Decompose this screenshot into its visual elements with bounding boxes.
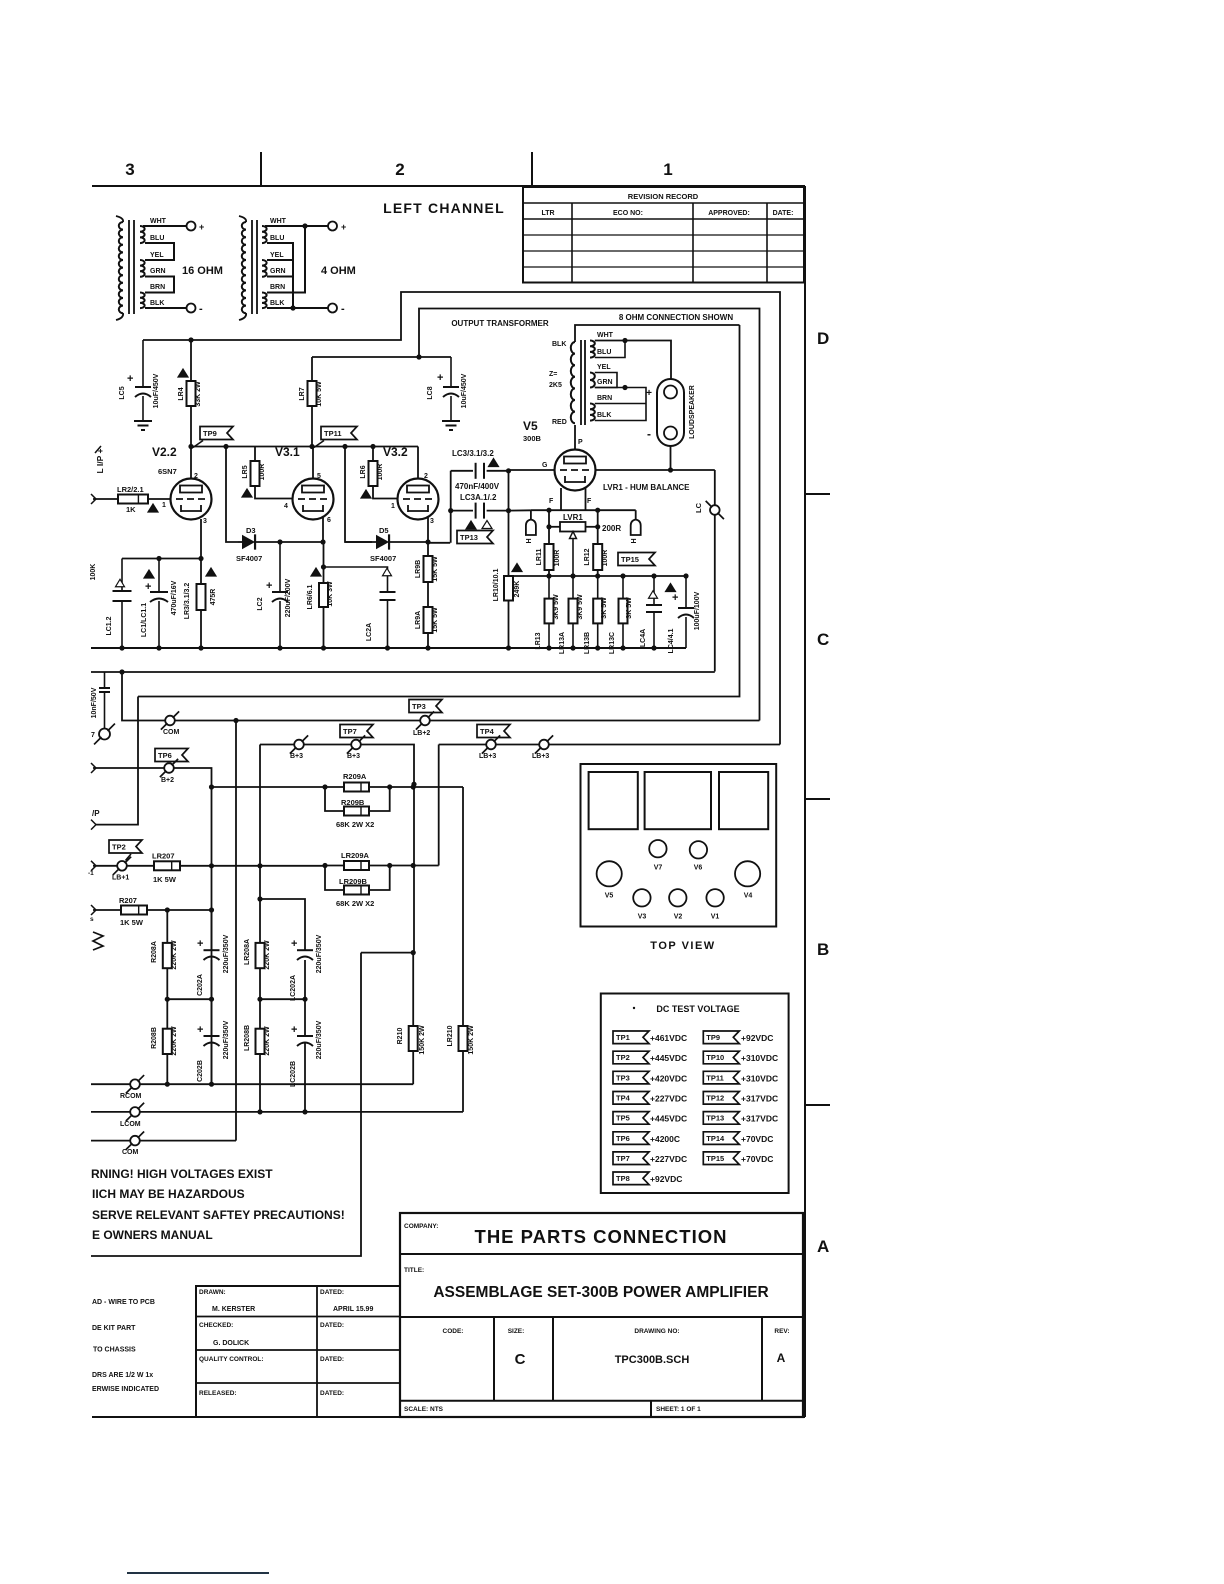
svg-text:TP6: TP6 bbox=[158, 751, 172, 760]
test point TP4 bbox=[477, 725, 510, 738]
svg-text:3: 3 bbox=[430, 518, 434, 525]
tube hole V2 bbox=[669, 889, 686, 906]
resistor LR5 100R bbox=[254, 447, 256, 462]
DC table flag TP6 bbox=[613, 1132, 649, 1145]
LC4A polarity triangle bbox=[649, 591, 658, 599]
svg-text:7: 7 bbox=[91, 732, 95, 739]
wire LR209A row to LB+3 riser bbox=[390, 865, 439, 867]
connector LB+2 bbox=[420, 716, 430, 726]
svg-text:249K: 249K bbox=[514, 581, 521, 598]
input zigzag symbol bbox=[93, 932, 103, 950]
svg-text:10uF/450V: 10uF/450V bbox=[461, 373, 468, 408]
COM row wire bbox=[140, 1140, 236, 1142]
wire riser x463 to LR210 bbox=[462, 787, 464, 1026]
wire COM vertical to bottom COM row bbox=[235, 721, 237, 1141]
svg-text:TP9: TP9 bbox=[203, 429, 217, 438]
svg-text:B+2: B+2 bbox=[161, 777, 174, 784]
svg-text:Z=: Z= bbox=[549, 371, 557, 378]
capacitor 10nF/50V at left edge bbox=[104, 672, 106, 688]
svg-text:33K 2W: 33K 2W bbox=[195, 381, 202, 407]
svg-text:TPC300B.SCH: TPC300B.SCH bbox=[615, 1354, 690, 1366]
svg-text:LEFT CHANNEL: LEFT CHANNEL bbox=[383, 200, 505, 216]
capacitor LC3A.1/.2 bbox=[451, 510, 473, 512]
wire LR207 to LR209A row bbox=[180, 865, 325, 867]
svg-text:WHT: WHT bbox=[150, 218, 167, 225]
svg-text:+: + bbox=[291, 938, 297, 950]
svg-text:+227VDC: +227VDC bbox=[650, 1094, 687, 1104]
wire /P drop bbox=[95, 697, 138, 825]
svg-text:+: + bbox=[437, 372, 443, 384]
svg-text:16 OHM: 16 OHM bbox=[182, 265, 223, 277]
wire D5 anode drop bbox=[345, 447, 372, 543]
capacitor C202A 220uF/350V bbox=[211, 910, 213, 950]
svg-text:5: 5 bbox=[317, 473, 321, 480]
svg-text:150K 2W: 150K 2W bbox=[468, 1025, 475, 1055]
svg-text:+420VDC: +420VDC bbox=[650, 1073, 687, 1083]
LR4 triangle bbox=[178, 369, 188, 377]
OT GRN jumper to BLK bbox=[595, 388, 646, 421]
title row divider bbox=[400, 1316, 803, 1318]
svg-text:C202A: C202A bbox=[197, 974, 204, 996]
svg-text:RNING! HIGH VOLTAGES EXIST: RNING! HIGH VOLTAGES EXIST bbox=[91, 1167, 273, 1181]
svg-text:TP12: TP12 bbox=[706, 1094, 724, 1103]
svg-text:2: 2 bbox=[194, 473, 198, 480]
svg-text:COM: COM bbox=[122, 1149, 139, 1156]
connector LB+1 bbox=[117, 861, 127, 871]
test point TP2 bbox=[109, 840, 142, 853]
code/size/drawing/rev dividers bbox=[493, 1317, 495, 1401]
svg-text:+70VDC: +70VDC bbox=[741, 1154, 773, 1164]
svg-text:A: A bbox=[777, 1351, 786, 1365]
resistor LR13 3K9 5W bbox=[548, 576, 550, 599]
svg-text:D5: D5 bbox=[379, 526, 389, 535]
svg-text:TP1: TP1 bbox=[616, 1033, 630, 1042]
LC202B lead down bbox=[304, 1043, 306, 1112]
svg-text:3: 3 bbox=[125, 160, 134, 179]
svg-text:ASSEMBLAGE SET-300B POWER AMPL: ASSEMBLAGE SET-300B POWER AMPLIFIER bbox=[433, 1284, 768, 1301]
output transformer core bbox=[580, 340, 582, 425]
svg-text:V4: V4 bbox=[744, 893, 753, 900]
svg-text:LB+1: LB+1 bbox=[112, 875, 129, 882]
svg-text:LR11: LR11 bbox=[536, 549, 543, 566]
DC table flag TP4 bbox=[613, 1092, 649, 1105]
svg-text:-: - bbox=[341, 303, 345, 315]
svg-text:LR5: LR5 bbox=[242, 465, 249, 478]
svg-text:LB+3: LB+3 bbox=[532, 753, 549, 760]
svg-text:LC2A: LC2A bbox=[366, 623, 373, 641]
svg-text:150K 2W: 150K 2W bbox=[419, 1025, 426, 1055]
resistor LR208B 220K 2W bbox=[256, 1029, 265, 1054]
svg-text:THE PARTS CONNECTION: THE PARTS CONNECTION bbox=[475, 1226, 728, 1247]
wire COM / LB+2 row bbox=[122, 672, 760, 721]
svg-text:+: + bbox=[127, 373, 133, 385]
svg-text:LR13A: LR13A bbox=[559, 632, 566, 654]
svg-text:TP5: TP5 bbox=[616, 1114, 630, 1123]
svg-text:LC5: LC5 bbox=[119, 386, 126, 399]
svg-text:GRN: GRN bbox=[597, 379, 613, 386]
svg-text:LC202A: LC202A bbox=[290, 975, 297, 1001]
wire R210 branch bbox=[361, 952, 413, 954]
wire B+2 row bbox=[91, 763, 96, 773]
svg-text:+: + bbox=[199, 222, 204, 232]
transformer T2 secondary windings bbox=[262, 226, 267, 243]
resistor R209B 68K 2W bbox=[325, 787, 344, 811]
tube V3.1 bbox=[293, 479, 334, 520]
svg-text:3K9 5W: 3K9 5W bbox=[577, 594, 584, 620]
svg-text:APRIL 15.99: APRIL 15.99 bbox=[333, 1306, 373, 1313]
svg-text:220K 2W: 220K 2W bbox=[171, 940, 178, 970]
test point TP15 bbox=[618, 553, 655, 566]
resistor LR6/6.1 10K 3W bbox=[323, 542, 325, 583]
zone tick top 3/2 bbox=[260, 152, 262, 186]
svg-text:D: D bbox=[817, 329, 829, 348]
svg-text:BLK: BLK bbox=[597, 412, 611, 419]
wire input to LB+1 bbox=[91, 861, 96, 871]
svg-text:REV:: REV: bbox=[774, 1328, 789, 1335]
svg-text:DRAWN:: DRAWN: bbox=[199, 1289, 226, 1296]
wire output transformer primary B+ top edge bbox=[575, 325, 740, 342]
svg-text:15K 5W: 15K 5W bbox=[432, 556, 439, 582]
svg-text:YEL: YEL bbox=[597, 364, 611, 371]
svg-text:TP14: TP14 bbox=[706, 1134, 725, 1143]
T1 WHT tap wire bbox=[143, 225, 186, 227]
svg-text:COM: COM bbox=[163, 729, 180, 736]
resistor LR12 100R bbox=[593, 544, 602, 570]
svg-text:LC3/3.1/3.2: LC3/3.1/3.2 bbox=[452, 449, 494, 458]
svg-text:-: - bbox=[647, 427, 651, 441]
svg-text:475R: 475R bbox=[210, 589, 217, 606]
svg-text:TP7: TP7 bbox=[343, 727, 357, 736]
T2 GRN tap bbox=[267, 276, 293, 278]
resistor 475R (LR3/3.1/3.2) bbox=[200, 559, 202, 585]
approvals table outer bbox=[196, 1286, 400, 1417]
svg-text:200R: 200R bbox=[602, 524, 621, 533]
svg-text:1K 5W: 1K 5W bbox=[120, 918, 144, 927]
resistor R208B 220K 2W bbox=[163, 1029, 172, 1054]
svg-text:B+3: B+3 bbox=[290, 753, 303, 760]
svg-text:TP8: TP8 bbox=[616, 1174, 630, 1183]
capacitor LC2A bbox=[324, 567, 388, 592]
svg-text:LR6: LR6 bbox=[360, 465, 367, 478]
LC1.2 triangle bbox=[116, 579, 125, 587]
test point TP11 bbox=[321, 427, 357, 440]
capacitor LC8 10uF/450V bbox=[450, 357, 452, 387]
svg-text:V5: V5 bbox=[605, 893, 614, 900]
connector B+2 bbox=[164, 763, 174, 773]
svg-text:LR210: LR210 bbox=[447, 1025, 454, 1046]
svg-text:TP13: TP13 bbox=[460, 533, 478, 542]
svg-text:A: A bbox=[817, 1237, 829, 1256]
DC test voltage box bbox=[601, 994, 789, 1194]
svg-text:LC2: LC2 bbox=[257, 597, 264, 610]
DC table flag TP10 bbox=[703, 1051, 739, 1064]
capacitor LC202A 220uF/350V bbox=[260, 899, 305, 950]
svg-text:BRN: BRN bbox=[597, 395, 612, 402]
svg-text:LR13B: LR13B bbox=[584, 632, 591, 654]
svg-text:6: 6 bbox=[327, 517, 331, 524]
svg-text:DATE:: DATE: bbox=[773, 210, 794, 217]
svg-text:+317VDC: +317VDC bbox=[741, 1114, 778, 1124]
T2 BLU-YEL bracket bbox=[267, 243, 293, 260]
wire loudspeaker - to feedback row bbox=[670, 446, 672, 470]
wire R207 to R208A column bbox=[147, 909, 212, 911]
svg-text:C: C bbox=[817, 630, 829, 649]
test point TP9 bbox=[200, 427, 233, 440]
svg-text:220K 2W: 220K 2W bbox=[171, 1026, 178, 1056]
svg-text:SIZE:: SIZE: bbox=[508, 1328, 525, 1335]
svg-text:LC8: LC8 bbox=[427, 386, 434, 399]
svg-text:3K 5W: 3K 5W bbox=[601, 597, 608, 619]
loudspeaker connector bbox=[657, 379, 684, 446]
LR6 triangle bbox=[361, 490, 371, 498]
svg-text:TITLE:: TITLE: bbox=[404, 1267, 424, 1274]
chassis connector circle bbox=[99, 729, 110, 740]
svg-text:LC3A.1/.2: LC3A.1/.2 bbox=[460, 493, 497, 502]
svg-text:BLK: BLK bbox=[150, 300, 164, 307]
svg-text:P: P bbox=[578, 439, 583, 446]
T2 WHT tap wire to + terminal bbox=[265, 225, 328, 227]
svg-text:LB+3: LB+3 bbox=[479, 753, 496, 760]
svg-text:DATED:: DATED: bbox=[320, 1322, 344, 1329]
resistor LR209A 68K 2W bbox=[325, 865, 344, 867]
zone tick right D/C bbox=[805, 493, 830, 495]
transformer T1 16 OHM primary coil bbox=[116, 216, 123, 222]
svg-text:R208B: R208B bbox=[151, 1027, 158, 1049]
svg-text:APPROVED:: APPROVED: bbox=[708, 210, 750, 217]
filament row wire bbox=[531, 509, 636, 511]
transformer T1 secondary windings bbox=[140, 226, 145, 243]
svg-text:C202B: C202B bbox=[197, 1060, 204, 1082]
RCOM row wire bbox=[140, 1083, 413, 1085]
connector LCOM bbox=[91, 1111, 131, 1113]
svg-text:s: s bbox=[90, 916, 94, 923]
zone tick top 2/1 bbox=[531, 152, 533, 186]
svg-text:+92VDC: +92VDC bbox=[741, 1033, 773, 1043]
wire warning-area drop bbox=[91, 953, 361, 1256]
OT WHT tap wire to loudspeaker + bbox=[595, 341, 671, 382]
cathode resistor common row bbox=[548, 570, 550, 576]
tube V3.2 bbox=[398, 479, 439, 520]
svg-text:SCALE: NTS: SCALE: NTS bbox=[404, 1406, 444, 1413]
wire B+3 row segment bbox=[260, 745, 414, 785]
svg-text:LR13: LR13 bbox=[535, 632, 542, 649]
svg-text:REVISION RECORD: REVISION RECORD bbox=[628, 192, 699, 201]
resistor R209A 68K 2W bbox=[212, 786, 464, 788]
company row divider bbox=[400, 1253, 803, 1255]
svg-text:M. KERSTER: M. KERSTER bbox=[212, 1306, 255, 1313]
wire D3 anode drop bbox=[226, 447, 238, 543]
test point TP6 bbox=[155, 749, 188, 762]
svg-text:G: G bbox=[542, 462, 548, 469]
C202B lead down bbox=[211, 1043, 213, 1084]
resistor LR210 150K 2W bbox=[459, 1026, 468, 1051]
T1 BLU-YEL jumper bbox=[145, 243, 174, 260]
svg-text:LR12: LR12 bbox=[584, 548, 591, 565]
resistor LR10/10.1 249K bbox=[508, 471, 510, 576]
svg-text:+: + bbox=[145, 581, 151, 593]
svg-text:LB+2: LB+2 bbox=[413, 730, 430, 737]
DC table flag TP2 bbox=[613, 1051, 649, 1064]
resistor LR9B 15K 5W bbox=[427, 542, 429, 556]
svg-text:1: 1 bbox=[162, 502, 166, 509]
wire feedback down right side bbox=[714, 470, 716, 672]
H bullet left bbox=[530, 510, 532, 519]
connector LB+3 second bbox=[539, 740, 549, 750]
capacitor LC4/4.1 100uF/100V bbox=[685, 576, 687, 608]
T1 - terminal bbox=[187, 304, 196, 313]
T2 WHT-BRN parallel jumper bbox=[293, 226, 305, 293]
svg-text:OUTPUT TRANSFORMER: OUTPUT TRANSFORMER bbox=[451, 319, 549, 328]
svg-text:R209B: R209B bbox=[341, 798, 365, 807]
transformer cutout 3 bbox=[719, 772, 768, 829]
LC connector circle bbox=[710, 505, 720, 515]
resistor LR7 10K 5W bbox=[311, 357, 313, 381]
svg-text:TO CHASSIS: TO CHASSIS bbox=[93, 1347, 136, 1354]
svg-text:GRN: GRN bbox=[270, 268, 286, 275]
wire plate rail row bbox=[191, 446, 345, 448]
zone tick right B/A bbox=[805, 1104, 830, 1106]
svg-text:LC4/4.1: LC4/4.1 bbox=[668, 628, 675, 653]
T2 - terminal bbox=[328, 304, 337, 313]
ground bus bbox=[91, 647, 686, 649]
V5 plate feedback wire to LS- bbox=[596, 469, 715, 471]
OT BLU jumper to WHT bbox=[595, 341, 625, 358]
svg-text:DC TEST VOLTAGE: DC TEST VOLTAGE bbox=[656, 1004, 739, 1014]
wire R209A/LR209A riser x414 bbox=[413, 784, 415, 952]
svg-text:SERVE RELEVANT SAFTEY PRECAUTI: SERVE RELEVANT SAFTEY PRECAUTIONS! bbox=[92, 1208, 345, 1222]
DC table flag TP15 bbox=[703, 1152, 739, 1165]
svg-text:LR13C: LR13C bbox=[609, 632, 616, 654]
C202A lead up bbox=[211, 910, 213, 950]
svg-text:WHT: WHT bbox=[270, 218, 287, 225]
svg-text:TP3: TP3 bbox=[412, 702, 426, 711]
LCOM row wire bbox=[140, 1111, 463, 1113]
svg-text:V2.2: V2.2 bbox=[152, 445, 177, 459]
LR2 output triangle bbox=[148, 504, 158, 512]
DC table flag TP11 bbox=[703, 1071, 739, 1084]
svg-text:+: + bbox=[341, 222, 346, 232]
svg-text:E OWNERS MANUAL: E OWNERS MANUAL bbox=[92, 1228, 213, 1242]
svg-text:+445VDC: +445VDC bbox=[650, 1053, 687, 1063]
svg-text:TP11: TP11 bbox=[324, 429, 342, 438]
svg-text:68K 2W X2: 68K 2W X2 bbox=[336, 820, 374, 829]
svg-text:/P: /P bbox=[92, 809, 100, 818]
svg-text:GRN: GRN bbox=[150, 268, 166, 275]
svg-text:R210: R210 bbox=[397, 1028, 404, 1045]
svg-text:LTR: LTR bbox=[541, 210, 554, 217]
svg-text:LR4: LR4 bbox=[178, 387, 185, 400]
svg-text:TP3: TP3 bbox=[616, 1073, 630, 1082]
svg-text:LR3/3.1/3.2: LR3/3.1/3.2 bbox=[184, 583, 191, 620]
svg-text:LR9B: LR9B bbox=[415, 560, 422, 578]
resistor LR209B 68K 2W bbox=[325, 866, 344, 891]
svg-text:DE KIT PART: DE KIT PART bbox=[92, 1325, 136, 1332]
DC table flag TP14 bbox=[703, 1132, 739, 1145]
svg-text:1K 5W: 1K 5W bbox=[153, 875, 177, 884]
svg-text:LR7: LR7 bbox=[299, 387, 306, 400]
svg-text:DATED:: DATED: bbox=[320, 1289, 344, 1296]
svg-text:3K9 5W: 3K9 5W bbox=[553, 594, 560, 620]
input wire to LR2 bbox=[91, 494, 96, 504]
svg-text:DATED:: DATED: bbox=[320, 1390, 344, 1397]
svg-text:10nF/50V: 10nF/50V bbox=[91, 687, 98, 718]
H bullet right bbox=[635, 510, 637, 519]
DC table flag TP7 bbox=[613, 1152, 649, 1165]
revision record table bbox=[523, 187, 804, 283]
svg-text:LC4A: LC4A bbox=[640, 629, 647, 647]
svg-text:BLU: BLU bbox=[150, 235, 164, 242]
svg-text:LR6/6.1: LR6/6.1 bbox=[307, 584, 314, 609]
transformer T1 core bbox=[128, 220, 130, 314]
wire R207 input bbox=[91, 905, 96, 915]
resistor R210 150K 2W bbox=[412, 953, 414, 1026]
potentiometer LVR1 bbox=[548, 510, 550, 544]
svg-text:TP15: TP15 bbox=[706, 1154, 724, 1163]
diode D3 SF4007 bbox=[238, 541, 246, 543]
svg-text:2: 2 bbox=[395, 160, 404, 179]
svg-text:LC1/LC1.1: LC1/LC1.1 bbox=[141, 603, 148, 637]
svg-text:V2: V2 bbox=[674, 914, 683, 921]
C202 column mid leads bbox=[211, 960, 213, 1036]
tube hole V7 bbox=[649, 840, 666, 857]
svg-text:BRN: BRN bbox=[270, 284, 285, 291]
svg-text:COMPANY:: COMPANY: bbox=[404, 1223, 438, 1230]
T1 BLK tap wire bbox=[145, 307, 186, 309]
T1 + terminal bbox=[187, 222, 196, 231]
svg-text:V5: V5 bbox=[523, 419, 538, 433]
svg-text:+: + bbox=[291, 1024, 297, 1036]
svg-text:100R: 100R bbox=[554, 550, 561, 567]
svg-text:TP4: TP4 bbox=[480, 727, 495, 736]
svg-text:+: + bbox=[266, 580, 272, 592]
wire V2.2 plate pin2 to TP9 node bbox=[190, 447, 192, 479]
svg-text:15K 5W: 15K 5W bbox=[432, 607, 439, 633]
DC table flag TP3 bbox=[613, 1071, 649, 1084]
DC table flag TP12 bbox=[703, 1092, 739, 1105]
svg-text:LR209B: LR209B bbox=[339, 877, 368, 886]
wire LB+3 row with connector circles bbox=[439, 744, 780, 746]
DC table flag TP13 bbox=[703, 1112, 739, 1125]
svg-text:10K 5W: 10K 5W bbox=[316, 381, 323, 407]
svg-text:TP10: TP10 bbox=[706, 1053, 724, 1062]
LVR1 wiper arrow bbox=[572, 537, 574, 576]
svg-text:LCOM: LCOM bbox=[120, 1121, 141, 1128]
ground symbol LC8 bbox=[442, 420, 460, 422]
wire LR2 to V2.2 grid pin 1 bbox=[148, 498, 170, 500]
DC table flag TP5 bbox=[613, 1112, 649, 1125]
resistor R207 1K 5W bbox=[121, 906, 147, 915]
svg-text:V3.1: V3.1 bbox=[275, 445, 300, 459]
resistor R208A 220K 2W bbox=[166, 910, 168, 943]
chassis top view box bbox=[581, 764, 777, 927]
sheet top border bbox=[92, 185, 805, 187]
svg-text:AD - WIRE TO PCB: AD - WIRE TO PCB bbox=[92, 1299, 155, 1306]
svg-text:BRN: BRN bbox=[150, 284, 165, 291]
OT YEL-GRN bracket bbox=[595, 373, 617, 388]
svg-text:RELEASED:: RELEASED: bbox=[199, 1390, 237, 1397]
wire V2.2 cathode pin3 down bbox=[200, 519, 202, 559]
capacitor LC1.2 bbox=[121, 559, 123, 592]
svg-text:1: 1 bbox=[663, 160, 672, 179]
svg-text:B: B bbox=[817, 940, 829, 959]
svg-text:+: + bbox=[646, 388, 652, 399]
svg-text:RED: RED bbox=[552, 419, 567, 426]
tube hole V6 bbox=[690, 841, 707, 858]
svg-text:220uF/350V: 220uF/350V bbox=[316, 1020, 323, 1059]
svg-text:10K 3W: 10K 3W bbox=[327, 581, 334, 607]
title block outer bbox=[400, 1213, 803, 1417]
wire LC3A row to filament row bbox=[509, 509, 531, 511]
